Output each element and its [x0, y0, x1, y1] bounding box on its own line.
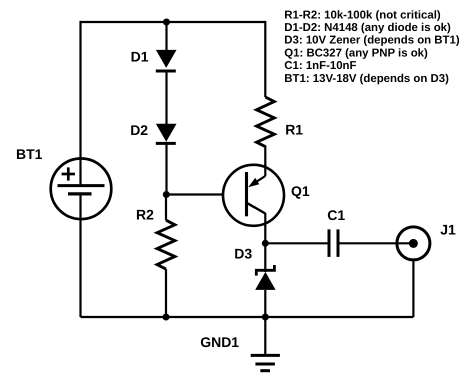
ground GND1 — [251, 317, 280, 371]
resistor R2 — [157, 220, 175, 269]
transistor Q1 — [223, 165, 284, 227]
resistor R1 — [257, 97, 275, 147]
wire R1 to Q1 emitter — [264, 146, 266, 168]
svg-text:Q1: BC327 (any PNP is ok): Q1: BC327 (any PNP is ok) — [284, 47, 428, 59]
svg-text:J1: J1 — [440, 221, 456, 237]
note text block — [284, 9, 460, 85]
svg-text:C1: 1nF-10nF: C1: 1nF-10nF — [284, 60, 356, 72]
wire J1 to bottom rail — [412, 260, 414, 317]
node R2 bottom junction — [163, 314, 170, 321]
svg-text:D3: D3 — [234, 245, 252, 261]
wire base — [166, 193, 246, 195]
wire base node to R2 — [165, 195, 167, 221]
diode D2 — [156, 124, 177, 144]
svg-text:R1-R2: 10k-100k (not critical): R1-R2: 10k-100k (not critical) — [284, 9, 441, 21]
wire R2 to bottom rail — [165, 269, 167, 317]
svg-text:D1-D2: N4148 (any diode is ok): D1-D2: N4148 (any diode is ok) — [284, 22, 451, 34]
wire top rail to R1 — [264, 21, 266, 97]
svg-text:C1: C1 — [327, 207, 345, 223]
wire top rail — [81, 21, 266, 23]
connector J1 — [397, 227, 430, 260]
svg-text:BT1: 13V-18V (depends on D3): BT1: 13V-18V (depends on D3) — [284, 73, 449, 85]
wire D3 to bottom rail — [264, 290, 266, 317]
svg-text:D2: D2 — [130, 122, 148, 138]
wire left rail lower — [79, 194, 81, 317]
wire C1 to J1 — [338, 242, 413, 244]
wire D1 to D2 — [165, 71, 167, 125]
svg-text:Q1: Q1 — [291, 183, 310, 199]
node top junction — [163, 19, 170, 26]
diode D1 — [156, 50, 177, 71]
wire bottom rail — [81, 316, 414, 318]
wire collector node to D3 — [264, 243, 266, 272]
capacitor C1 — [329, 229, 338, 257]
svg-text:R2: R2 — [136, 207, 154, 223]
wire collector node to C1 — [265, 242, 329, 244]
wire Q1 collector to node — [264, 224, 266, 243]
node ground junction — [262, 314, 269, 321]
zener diode D3 — [255, 265, 275, 290]
svg-text:D1: D1 — [131, 48, 149, 64]
svg-text:BT1: BT1 — [16, 146, 43, 162]
svg-text:R1: R1 — [285, 122, 303, 138]
node base junction — [163, 191, 170, 198]
wire D2 to base node — [165, 143, 167, 194]
node collector junction — [262, 240, 269, 247]
battery BT1 — [51, 159, 112, 220]
svg-text:D3: 10V Zener (depends on BT1): D3: 10V Zener (depends on BT1) — [284, 35, 460, 47]
svg-text:GND1: GND1 — [200, 334, 239, 350]
wire top to D1 — [165, 22, 167, 51]
wire left rail upper — [79, 21, 81, 186]
